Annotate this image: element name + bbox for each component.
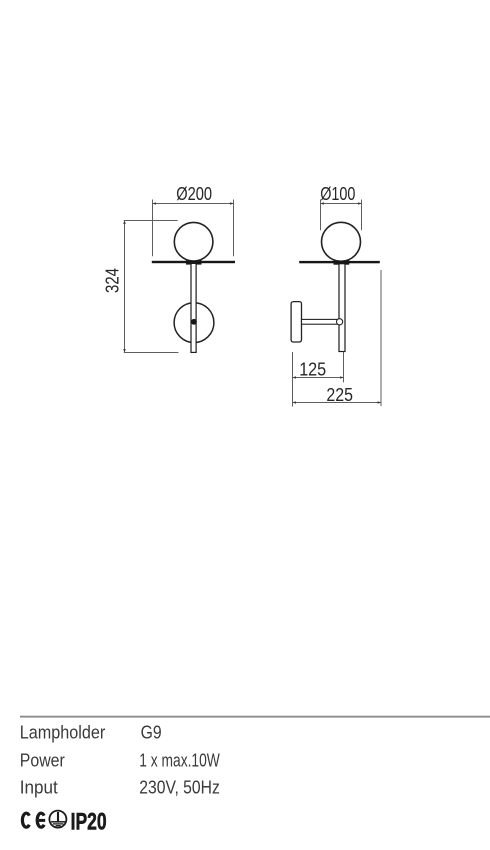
protective earth short bar <box>56 825 61 827</box>
extension line left (wall) <box>292 352 294 407</box>
svg-text:230V, 50Hz: 230V, 50Hz <box>139 778 220 798</box>
arm rod end cap <box>337 319 343 325</box>
arrowheads D100 <box>321 202 362 205</box>
CE mark letter E <box>37 813 45 827</box>
svg-text:IP20: IP20 <box>71 808 107 835</box>
dimension line D200 <box>153 203 234 205</box>
wall disc front view <box>174 303 214 343</box>
extension tick 324 top <box>124 220 178 222</box>
table top rule <box>20 716 490 718</box>
protective earth long bar <box>51 821 65 823</box>
lamp socket nub side view <box>334 257 350 265</box>
protective earth symbol circle <box>49 811 66 828</box>
lamp socket nub front view <box>186 257 202 265</box>
extension line D200 right <box>233 200 235 257</box>
protective earth vertical stroke <box>57 812 59 821</box>
svg-text:324: 324 <box>102 268 123 293</box>
dimension line 324 <box>124 221 126 353</box>
extension line stem axis <box>343 352 345 383</box>
arrowheads 324 <box>123 221 126 353</box>
arrowheads D200 <box>153 202 234 205</box>
shelf plate front view <box>152 261 235 263</box>
CE mark letter C <box>22 813 29 827</box>
svg-text:225: 225 <box>326 384 353 405</box>
svg-text:125: 125 <box>299 359 326 380</box>
extension line D100 left <box>320 200 322 231</box>
dimension line 225 <box>293 402 382 404</box>
extension line D100 right <box>361 200 363 231</box>
svg-text:1 x max.10W: 1 x max.10W <box>139 750 220 770</box>
extension tick 324 bottom <box>124 352 179 354</box>
extension line D200 left <box>152 200 154 257</box>
protective earth middle bar <box>53 823 64 825</box>
glass ball front view <box>174 222 213 261</box>
arm rod side view <box>302 319 339 324</box>
svg-text:Power: Power <box>20 750 65 770</box>
stem side view <box>339 264 345 352</box>
svg-text:Lampholder: Lampholder <box>20 722 106 742</box>
dimension line D100 <box>321 203 362 205</box>
screw dot front view <box>191 319 197 325</box>
glass ball side view <box>322 222 361 261</box>
stem front view <box>191 263 196 352</box>
svg-text:Input: Input <box>20 778 58 798</box>
dimension line 125 <box>293 377 344 379</box>
arrowheads 125 <box>293 376 344 379</box>
svg-text:G9: G9 <box>141 722 162 742</box>
extension line 225 right <box>380 270 382 406</box>
arrowheads 225 <box>293 401 382 404</box>
shelf plate side view <box>299 261 380 263</box>
svg-text:Ø200: Ø200 <box>176 183 212 204</box>
svg-text:Ø100: Ø100 <box>320 183 355 204</box>
wall plate side view <box>291 302 301 342</box>
